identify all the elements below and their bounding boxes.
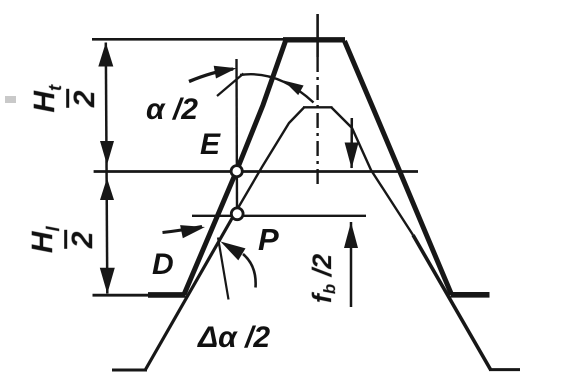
root line thick part (actual profile root, left) [148, 292, 186, 298]
label D [152, 248, 174, 282]
arrowhead Ht/2 up (top) [98, 43, 113, 67]
label P [258, 222, 279, 258]
arrowhead D leader right [180, 225, 205, 238]
arrowhead Ht/2 down (at pitch line) [100, 141, 114, 165]
D leader tail [163, 227, 203, 233]
label Ht/2 (rotated fraction) [30, 68, 100, 130]
arrowhead on arc pointing up-left at flank [284, 81, 304, 96]
nominal root left foot [112, 369, 147, 372]
nominal right flank (thin, upper) [332, 108, 414, 236]
node P circle [231, 208, 243, 220]
crest of actual profile (thick top) [283, 37, 345, 42]
alpha/2 angle arc [240, 74, 314, 102]
nominal left flank (thin, upper) [235, 108, 305, 215]
arrowhead f_b/2 up (at P line) [344, 222, 358, 248]
label alpha/2 [146, 93, 198, 127]
fan line [218, 238, 229, 300]
f_b/2 dimension upper shaft [350, 118, 353, 168]
P line [192, 215, 366, 217]
arrowhead f_b/2 down (at pitch line) [345, 143, 359, 169]
nominal root right foot [489, 368, 520, 371]
pitch line [94, 170, 418, 173]
f_b/2 dimension lower shaft [350, 222, 353, 307]
root line thin part [93, 294, 153, 297]
alpha/2 leader tail [189, 69, 233, 82]
alpha/2 short crossing segment [217, 74, 244, 97]
left dimension line Ht/2 and Hl/2 shaft [106, 43, 108, 294]
vertical line through E and P [235, 59, 238, 209]
delta-alpha/2 leader arc tail [243, 254, 256, 288]
thick left flank of actual profile [184, 41, 286, 295]
faint scan artifact left edge [5, 96, 16, 103]
top crest line thin part [92, 38, 290, 41]
label f_b/2 (rotated) [307, 254, 338, 303]
label Hl/2 (rotated fraction) [28, 209, 98, 271]
root tick thick (actual profile root, right) [451, 292, 490, 298]
thick right flank of actual profile [345, 41, 452, 295]
node E circle [231, 166, 242, 177]
nominal left flank (lower) [146, 214, 235, 370]
centerline (dash-dot) [316, 14, 319, 57]
arrowhead delta-alpha/2 up-left [221, 242, 246, 261]
label delta-alpha/2 [198, 321, 270, 355]
arrowhead Hl/2 down (at root line) [100, 268, 115, 294]
label E [200, 128, 220, 162]
arrowhead Hl/2 up (below pitch line) [100, 178, 114, 200]
nominal right flank (lower) [413, 235, 491, 370]
arrowhead alpha/2 right [214, 66, 237, 79]
nominal profile crest (thin flat top) [303, 106, 333, 108]
